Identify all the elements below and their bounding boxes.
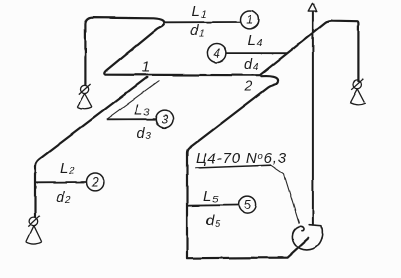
svg-text:2: 2 (91, 175, 99, 189)
label line L2 (36, 181, 87, 183)
fan label underline (195, 165, 271, 168)
label line L1 (164, 21, 240, 23)
svg-text:L5: L5 (204, 188, 219, 205)
hood symbol right (350, 79, 366, 105)
exhaust arrow (308, 3, 317, 11)
svg-text:d3: d3 (137, 126, 152, 142)
leader line from fan label to fan (271, 165, 299, 224)
node circle 2 (87, 173, 104, 190)
hood symbol top-left (77, 84, 92, 109)
svg-text:L1: L1 (192, 3, 207, 20)
duct segment 2: riser from bottom-left hood, elbow, diagonal up-right to tee on line 1 (36, 77, 147, 216)
svg-text:d2: d2 (56, 190, 71, 206)
svg-text:4: 4 (213, 47, 220, 61)
svg-text:L4: L4 (248, 32, 263, 49)
node circle 4 (207, 44, 226, 63)
duct segment 1: hood riser, arc elbow, top run, bend down-left, horizontal main line 1, diagonal up to stack header (85, 18, 358, 85)
svg-text:d5: d5 (206, 213, 221, 230)
svg-text:5: 5 (244, 198, 251, 212)
exhaust stack wire (312, 12, 314, 225)
node circle 5 (239, 196, 256, 213)
svg-text:3: 3 (161, 113, 168, 127)
svg-text:d1: d1 (191, 23, 205, 39)
main duct to fan: hairpin bend at end of line 1, diagonal down-left, drop, floor run, diagonal into fan inlet (187, 76, 308, 258)
label line L4 (227, 52, 288, 54)
node circle 3 (156, 110, 174, 128)
fan Ц4-70 scroll symbol (292, 225, 322, 250)
node circle 1 (241, 11, 259, 29)
hood symbol bottom-left (26, 216, 41, 244)
svg-text:L3: L3 (135, 101, 150, 118)
svg-text:d4: d4 (244, 57, 259, 73)
label line L3 with leader (106, 118, 155, 120)
svg-text:L2: L2 (60, 160, 75, 177)
svg-text:1: 1 (246, 13, 253, 27)
svg-text:1: 1 (142, 59, 150, 76)
label line L5 (187, 204, 238, 207)
svg-text:2: 2 (244, 78, 253, 94)
svg-text:Ц4-70 No6,3: Ц4-70 No6,3 (196, 150, 287, 167)
